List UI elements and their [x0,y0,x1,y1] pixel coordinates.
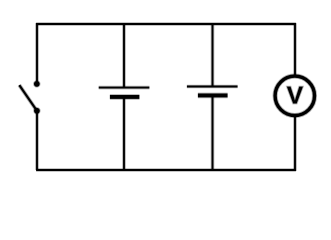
wire battery B1 bottom lead [122,97,126,170]
battery B1 [99,88,150,97]
wire left lower [35,111,39,170]
switch S1 [19,80,40,114]
wire right lower [293,116,297,171]
wire top [36,22,296,26]
battery B2 [187,87,238,96]
wire battery B2 bottom lead [211,95,215,170]
wire left upper [35,23,39,84]
wire bottom [36,168,296,172]
wire battery B1 top lead [122,24,126,88]
wire right upper [293,23,297,76]
wire battery B2 top lead [211,24,215,87]
voltmeter V1 [275,76,314,115]
